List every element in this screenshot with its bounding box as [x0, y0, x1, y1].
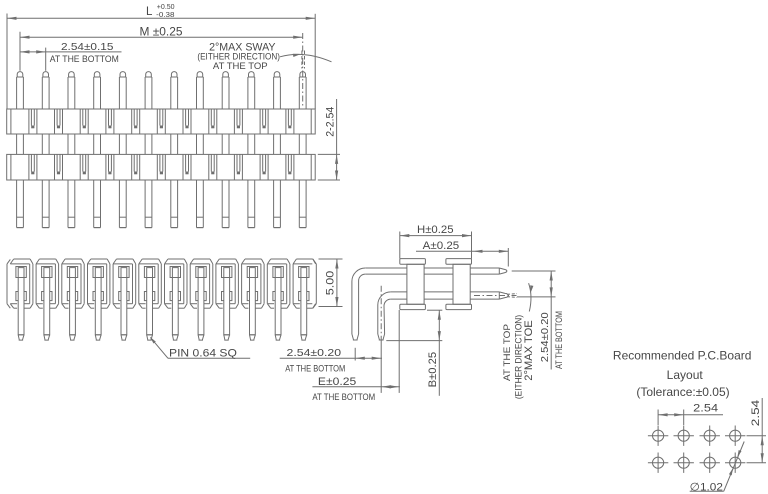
insulator block 7 (bottom view) — [165, 259, 188, 308]
pin row 2 toe swayed outline (dashed) — [507, 294, 517, 298]
dimension 2.54±0.20 at the bottom (right side) — [512, 271, 564, 370]
pin row 2 right tip — [499, 292, 508, 299]
pin 8 tail (bottom view) — [196, 267, 206, 341]
insulator A bottom flange (side view) — [400, 304, 426, 309]
seam between blocks 3-4 (bottom view) — [81, 264, 88, 304]
svg-text:AT THE TOP: AT THE TOP — [213, 61, 268, 71]
pin 9 tail (bottom view) — [222, 267, 232, 341]
note 2° max toe at the top (rotated) — [502, 315, 535, 399]
pin 12 swayed outline (dashed) — [302, 51, 305, 69]
svg-text:(Tolerance:±0.05): (Tolerance:±0.05) — [636, 385, 729, 399]
dimension E±0.25 — [312, 310, 400, 402]
hole row 2 col 3 — [700, 453, 720, 473]
insulator block 10 (bottom view) — [242, 259, 265, 308]
pin 11 tail (bottom view) — [273, 267, 283, 341]
pin 7 (straight header) — [171, 72, 178, 228]
pin row 2 centerline vertical (dash-dot) — [380, 286, 382, 341]
insulator band 2 (straight header) — [7, 154, 316, 180]
pin 3 tail (bottom view) — [67, 267, 77, 341]
insulator block 3 (bottom view) — [62, 259, 84, 308]
toe sway arc — [529, 283, 534, 311]
pin 12 centerline (dash-dot) — [302, 33, 304, 108]
svg-text:B±0.25: B±0.25 — [427, 352, 439, 388]
svg-text:2.54: 2.54 — [750, 400, 762, 427]
svg-text:5.00: 5.00 — [325, 271, 337, 296]
svg-text:Recommended P.C.Board: Recommended P.C.Board — [613, 348, 752, 362]
svg-text:E±0.25: E±0.25 — [318, 376, 356, 388]
pin 6 (straight header) — [145, 72, 152, 228]
pin 8 (straight header) — [197, 72, 204, 228]
pin 9 (straight header) — [222, 72, 229, 228]
svg-text:(EITHER DIRECTION): (EITHER DIRECTION) — [197, 52, 280, 62]
dimension 2.54±0.15 at the bottom — [20, 41, 122, 71]
hole row 2 col 4 — [725, 453, 745, 473]
note 2° max sway at the top — [197, 42, 280, 72]
dimension 2.54±0.20 at the bottom (tails) — [280, 341, 382, 393]
pin row 2 (right-angle) horizontal segments — [391, 292, 500, 299]
pin row 2 left bend and tail — [378, 292, 391, 340]
svg-text:2.54±0.20: 2.54±0.20 — [287, 347, 342, 359]
dimension 2.54 vertical (pcb) — [747, 398, 767, 463]
insulator B web (side view) — [453, 264, 470, 304]
insulator B top flange (side view) — [446, 259, 472, 265]
pin 3 (straight header) — [68, 72, 75, 228]
insulator block 4 (bottom view) — [87, 259, 110, 308]
svg-text:M ±0.25: M ±0.25 — [140, 26, 183, 38]
insulator block 5 (bottom view) — [113, 259, 136, 308]
hole row 1 col 1 — [648, 426, 668, 446]
seam between blocks 10-11 (bottom view) — [261, 264, 267, 304]
seam between blocks 1-2 (bottom view) — [30, 264, 36, 304]
insulator A web (side view) — [407, 264, 424, 304]
pin 6 tail (bottom view) — [144, 267, 154, 341]
pin 11 (straight header) — [274, 72, 281, 228]
seam between blocks 6-7 (bottom view) — [158, 264, 164, 304]
svg-text:H±0.25: H±0.25 — [417, 224, 454, 236]
left end edge (bottom view) — [7, 259, 10, 308]
pin 12 (straight header) — [299, 72, 306, 228]
svg-text:Layout: Layout — [667, 368, 704, 382]
insulator block 1 (bottom view) — [10, 259, 33, 308]
svg-text:AT THE BOTTOM: AT THE BOTTOM — [50, 54, 119, 64]
pin row 1 left bend and tail — [352, 268, 365, 340]
insulator block 11 (bottom view) — [267, 259, 290, 308]
pin 4 tail (bottom view) — [93, 267, 103, 341]
title Recommended P.C.Board — [613, 348, 752, 362]
hole row 1 col 3 — [700, 426, 720, 446]
svg-text:-0.38: -0.38 — [156, 10, 174, 19]
svg-text:2.54: 2.54 — [693, 403, 718, 415]
insulator block 9 (bottom view) — [216, 259, 239, 308]
label Ø1.02 with leader — [690, 442, 745, 494]
svg-text:AT THE BOTTOM: AT THE BOTTOM — [554, 311, 564, 369]
pin 7 tail (bottom view) — [170, 267, 180, 341]
dimension 2.54 horizontal (pcb) — [658, 403, 723, 425]
pin row 1 (right-angle) horizontal segments — [365, 268, 499, 274]
seam between blocks 8-9 (bottom view) — [210, 264, 216, 304]
pin 12 tail (bottom view) — [299, 267, 309, 341]
insulator block 2 (bottom view) — [36, 259, 59, 308]
pin 1 tail (bottom view) — [16, 267, 26, 341]
pin 1 (straight header) — [17, 72, 24, 228]
seam between blocks 2-3 (bottom view) — [55, 264, 61, 304]
pin row 2 centerline horizontal (dash-dot) — [474, 295, 517, 297]
right end edge (bottom view) — [313, 259, 316, 308]
insulator block 6 (bottom view) — [139, 259, 162, 308]
insulator A top flange (side view) — [400, 259, 426, 265]
title (Tolerance:±0.05) — [636, 385, 729, 399]
title Layout — [667, 368, 704, 382]
insulator band 1 (straight header) — [7, 109, 316, 134]
svg-text:2.54±0.15: 2.54±0.15 — [61, 41, 114, 53]
dimension M ±0.25 — [20, 26, 303, 71]
seam between blocks 7-8 (bottom view) — [184, 264, 190, 304]
dimension A±0.25 — [416, 240, 508, 266]
pin 10 (straight header) — [248, 72, 255, 228]
pin 2 (straight header) — [42, 72, 49, 228]
sway leader arc — [280, 54, 332, 62]
dimension B±0.25 — [386, 310, 442, 396]
label PIN 0.64 SQ — [150, 337, 250, 360]
pin 2 tail (bottom view) — [42, 267, 52, 341]
dimension 5.00 — [319, 259, 343, 307]
hole row 2 col 1 — [648, 453, 668, 473]
pin 5 (straight header) — [119, 72, 126, 228]
hole row 2 col 2 — [674, 453, 694, 473]
seam between blocks 5-6 (bottom view) — [133, 264, 139, 304]
insulator B bottom flange (side view) — [446, 304, 472, 309]
pin 5 tail (bottom view) — [119, 267, 129, 341]
svg-text:2°MAX TOE: 2°MAX TOE — [523, 320, 535, 381]
dimension 2-2.54 — [318, 99, 340, 180]
svg-text:AT THE BOTTOM: AT THE BOTTOM — [312, 392, 375, 402]
svg-text:(EITHER DIRECTION): (EITHER DIRECTION) — [513, 315, 523, 399]
hole row 1 col 4 — [725, 426, 745, 446]
svg-text:AT THE BOTTOM: AT THE BOTTOM — [285, 363, 345, 373]
pin row 1 right tip — [499, 268, 507, 274]
seam between blocks 11-12 (bottom view) — [287, 264, 293, 304]
insulator block 8 (bottom view) — [190, 259, 213, 308]
dimension H±0.25 — [400, 224, 472, 259]
svg-text:PIN 0.64 SQ: PIN 0.64 SQ — [169, 347, 237, 359]
seam between blocks 4-5 (bottom view) — [107, 264, 113, 304]
dimension L +0.50/-0.38 — [7, 2, 315, 109]
seam between blocks 9-10 (bottom view) — [235, 264, 241, 304]
svg-text:L: L — [146, 6, 153, 18]
svg-text:AT THE TOP: AT THE TOP — [502, 324, 512, 381]
svg-text:2-2.54: 2-2.54 — [325, 107, 337, 137]
pin 10 tail (bottom view) — [247, 267, 257, 341]
svg-text:2.54±0.20: 2.54±0.20 — [539, 312, 551, 362]
svg-text:A±0.25: A±0.25 — [423, 240, 460, 252]
insulator block 12 (bottom view) — [293, 259, 316, 308]
pin 4 (straight header) — [94, 72, 101, 228]
hole row 1 col 2 — [674, 426, 694, 446]
